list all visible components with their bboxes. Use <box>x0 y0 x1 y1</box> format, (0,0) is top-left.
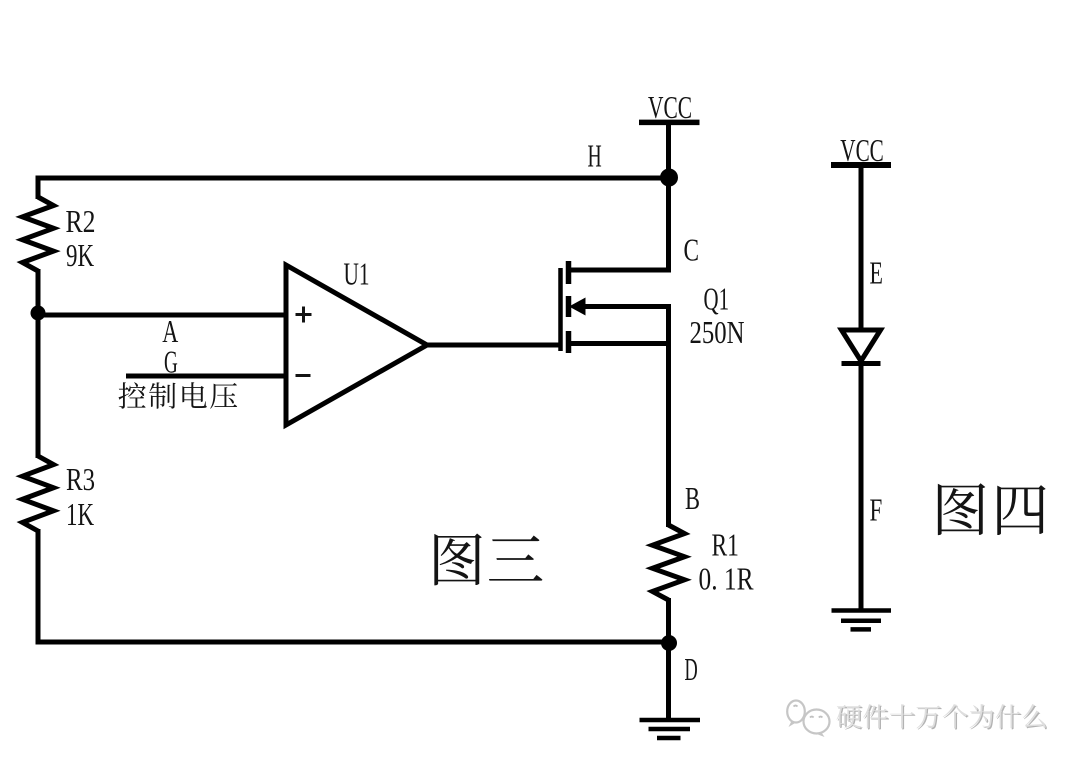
svg-text:E: E <box>870 255 883 291</box>
svg-text:0. 1R: 0. 1R <box>699 561 755 597</box>
svg-text:R3: R3 <box>66 461 95 497</box>
svg-text:D: D <box>685 651 698 687</box>
svg-text:C: C <box>684 232 700 268</box>
svg-text:G: G <box>164 344 178 380</box>
svg-text:VCC: VCC <box>648 89 692 125</box>
svg-text:VCC: VCC <box>840 132 884 168</box>
svg-text:Q1: Q1 <box>704 281 730 317</box>
svg-text:250N: 250N <box>690 314 745 350</box>
svg-text:B: B <box>685 480 700 516</box>
svg-text:F: F <box>870 492 883 528</box>
svg-text:1K: 1K <box>66 496 94 532</box>
svg-text:U1: U1 <box>344 256 370 292</box>
svg-text:R1: R1 <box>712 527 739 563</box>
svg-text:H: H <box>588 138 602 174</box>
svg-text:R2: R2 <box>66 203 96 239</box>
svg-text:9K: 9K <box>66 237 94 273</box>
